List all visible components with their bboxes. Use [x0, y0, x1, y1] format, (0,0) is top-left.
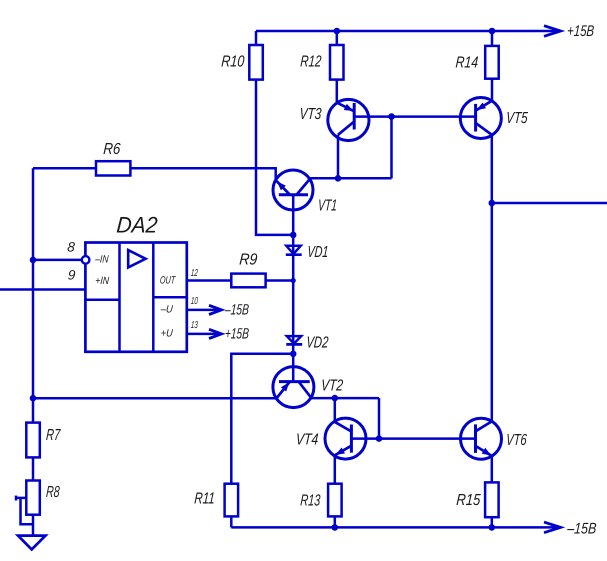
- resistor R12: [336, 31, 339, 45]
- transistor VT1: [273, 170, 313, 210]
- resistor R11: [225, 484, 239, 517]
- wire to R11: [231, 354, 293, 484]
- svg-text:R6: R6: [103, 141, 121, 158]
- node R14 top junction: [489, 28, 496, 35]
- transistor VT5: [460, 98, 501, 139]
- resistor R9: [231, 274, 265, 288]
- svg-text:VT3: VT3: [299, 106, 322, 123]
- svg-text:R9: R9: [239, 252, 258, 269]
- node VT4 base junction: [376, 435, 383, 442]
- diode VD2: [287, 336, 301, 344]
- node R11 branch junction: [290, 351, 297, 358]
- resistor R8: [26, 481, 40, 515]
- pin 8: [33, 259, 82, 262]
- node VT3 base junction: [388, 113, 395, 120]
- top +15V rail: [256, 30, 560, 33]
- resistor R7: [26, 423, 40, 458]
- svg-text:R15: R15: [456, 492, 481, 509]
- resistor R15: [485, 482, 499, 517]
- svg-text:VD2: VD2: [306, 335, 329, 352]
- node R9 junction: [291, 278, 296, 283]
- resistor R6: [33, 167, 96, 170]
- node R13 bottom junction: [332, 524, 339, 531]
- svg-text:VD1: VD1: [307, 244, 329, 261]
- R8 wiper tap: [15, 496, 18, 501]
- svg-text:13: 13: [190, 320, 198, 331]
- wire VT2 collector to VT4 base loop: [378, 398, 381, 439]
- svg-text:12: 12: [190, 268, 198, 279]
- wire VT2 emitter run: [33, 397, 277, 400]
- svg-text:–U: –U: [159, 303, 173, 315]
- resistor R10: [255, 31, 258, 45]
- pin 10: [187, 309, 221, 312]
- svg-text:OUT: OUT: [159, 275, 176, 287]
- wire VT3 collector-base loop: [390, 117, 393, 179]
- svg-text:VT2: VT2: [320, 378, 343, 395]
- svg-text:R8: R8: [46, 484, 61, 501]
- svg-text:–15В: –15В: [224, 301, 250, 318]
- svg-text:R11: R11: [194, 491, 216, 508]
- resistor R13: [328, 484, 342, 517]
- pin 9 input: [0, 288, 85, 291]
- svg-text:–15В: –15В: [566, 521, 597, 538]
- transistor VT6: [461, 418, 502, 459]
- +15V rail arrow: [544, 26, 561, 37]
- transistor VT3: [328, 99, 369, 140]
- node output junction: [489, 200, 496, 207]
- svg-text:R13: R13: [300, 493, 321, 510]
- svg-text:+U: +U: [160, 327, 173, 339]
- wire VT5-VT6 collectors: [491, 203, 494, 421]
- svg-text:+IN: +IN: [95, 275, 110, 287]
- svg-text:VT6: VT6: [506, 432, 528, 449]
- transistor VT4: [325, 418, 366, 459]
- svg-text:R10: R10: [221, 54, 245, 71]
- pin 13: [187, 333, 221, 336]
- node VT2 emitter tap: [30, 395, 37, 402]
- node VT2/VT4 collector junction: [332, 395, 339, 402]
- svg-text:DA2: DA2: [116, 213, 159, 238]
- node VT1 base / R10 junction: [290, 232, 297, 239]
- ground: [18, 536, 46, 550]
- svg-text:R12: R12: [300, 54, 322, 71]
- svg-text:VT4: VT4: [295, 432, 319, 449]
- wire R6 output to VT1 emitter: [130, 168, 275, 181]
- svg-text:R14: R14: [455, 55, 479, 72]
- svg-text:VT5: VT5: [506, 110, 529, 127]
- wire output: [492, 202, 607, 205]
- node pin8 tap: [30, 257, 37, 264]
- svg-text:VT1: VT1: [317, 198, 337, 215]
- resistor R14: [491, 31, 494, 46]
- -15V rail arrow: [544, 522, 561, 533]
- wire VD chain vertical: [292, 235, 295, 382]
- svg-text:R7: R7: [46, 427, 62, 444]
- diode VD1: [286, 246, 300, 254]
- node R15 bottom junction: [489, 524, 496, 531]
- bottom -15V rail: [231, 526, 560, 529]
- pin 12: [187, 279, 232, 282]
- node VT1/VT3 collector junction: [335, 175, 342, 182]
- svg-text:+15В: +15В: [224, 326, 249, 343]
- svg-text:10: 10: [190, 296, 198, 307]
- node R12 top junction: [334, 28, 341, 35]
- svg-text:–IN: –IN: [94, 254, 109, 266]
- svg-text:+15В: +15В: [567, 23, 595, 40]
- op-amp DA2: [85, 243, 186, 352]
- wire feedback node vertical: [32, 168, 35, 422]
- wire VT4 base to VT6: [351, 437, 475, 440]
- transistor VT2: [273, 367, 314, 408]
